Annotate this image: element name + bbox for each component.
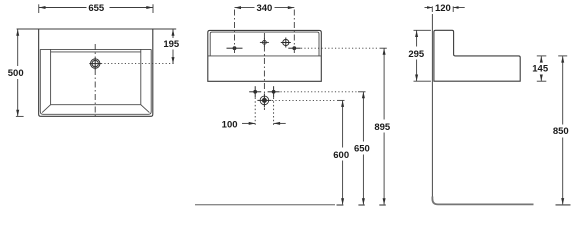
- bowl left wall top edge: [50, 49, 52, 104]
- bowl front-right corner diagonal: [141, 105, 150, 113]
- dotted leader from tap hole to 195 dim: [101, 63, 176, 65]
- svg-text:295: 295: [408, 49, 425, 60]
- dimension 655: [39, 3, 153, 14]
- basin front outer outline: [208, 30, 321, 81]
- basin outer rim rectangle: [39, 29, 153, 116]
- single tap hole circle: [281, 38, 291, 48]
- bowl floor back edge: [51, 51, 141, 53]
- right tap knockout dot: [288, 46, 300, 50]
- dimension 295: [408, 30, 431, 81]
- dotted leader right tap to 895 dim: [301, 47, 379, 49]
- left tap knockout dot: [227, 46, 243, 50]
- dimension 145: [532, 56, 549, 81]
- baseline tick under 600 arrow: [337, 204, 344, 206]
- right tap centerline (340 extension): [293, 10, 295, 55]
- small center hole circle: [260, 38, 269, 47]
- dimension 850: [553, 56, 569, 205]
- tap hole (plan) double circle with cross: [89, 58, 101, 70]
- basin front inner rim line: [210, 32, 319, 56]
- bowl floor front edge: [51, 104, 141, 106]
- basin bowl opening inner outline: [40, 49, 151, 114]
- dimension 340: [235, 3, 295, 14]
- svg-text:895: 895: [374, 122, 391, 133]
- svg-text:655: 655: [88, 3, 105, 14]
- dimension 650: [354, 92, 370, 205]
- bowl front-left corner diagonal: [42, 105, 51, 113]
- bowl right wall top edge: [140, 49, 142, 104]
- solid tick at 600 dim top: [337, 99, 345, 101]
- dotted leader mounting holes to 650 dim: [281, 91, 358, 93]
- dotted leader drain to 600 dim: [272, 99, 336, 101]
- svg-text:145: 145: [532, 64, 549, 75]
- wall line: [431, 14, 433, 199]
- solid tick at 895 dim top: [380, 47, 387, 49]
- dimension 195: [153, 29, 180, 64]
- floor baseline under middle view: [195, 204, 335, 206]
- basin side profile: [434, 30, 520, 81]
- center vertical axis line: [263, 33, 265, 110]
- floor line side view: [432, 197, 533, 205]
- right waste mounting hole: [268, 86, 280, 97]
- dimension 600: [333, 100, 349, 204]
- right mounting hole dashed extension down to 100 dim: [273, 98, 275, 127]
- svg-text:500: 500: [8, 68, 24, 79]
- left mounting hole dashed extension down to 100 dim: [254, 98, 256, 127]
- baseline tick under 650 arrow: [358, 204, 364, 206]
- tap hole vertical centerline: [94, 44, 96, 116]
- solid tick at 650 dim top: [358, 91, 366, 93]
- deck line front view: [208, 55, 321, 57]
- dimension 895: [374, 48, 391, 205]
- waste drain hole (ring + core + cross): [257, 93, 271, 107]
- dimension 500: [8, 29, 39, 116]
- dimension 100: [222, 119, 286, 130]
- svg-text:650: 650: [354, 144, 370, 155]
- svg-text:600: 600: [333, 150, 349, 161]
- svg-text:850: 850: [553, 126, 569, 137]
- svg-text:195: 195: [163, 39, 180, 50]
- svg-text:120: 120: [435, 3, 451, 14]
- dimension 120: [425, 3, 465, 14]
- svg-text:100: 100: [222, 119, 238, 130]
- left waste mounting hole: [249, 86, 261, 97]
- baseline tick under 850 arrow: [556, 204, 571, 206]
- deck line (bowl back edge): [40, 48, 151, 50]
- svg-text:340: 340: [256, 3, 272, 14]
- baseline tick under 895 arrow: [379, 204, 386, 206]
- left tap centerline (340 extension): [234, 10, 236, 55]
